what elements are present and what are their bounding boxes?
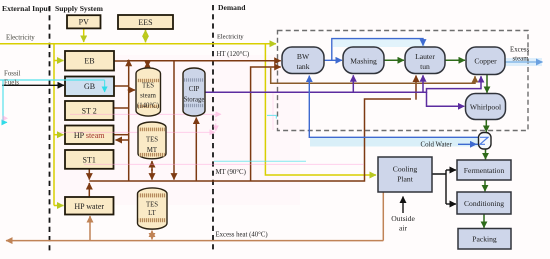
svg-text:air: air	[399, 224, 407, 233]
svg-text:Whirlpool: Whirlpool	[470, 102, 501, 111]
svg-text:TES: TES	[142, 83, 154, 90]
svg-text:Cold Water: Cold Water	[421, 142, 453, 149]
svg-text:HP water: HP water	[74, 202, 104, 211]
svg-text:ST1: ST1	[83, 155, 96, 164]
svg-text:Electricity: Electricity	[217, 33, 244, 40]
svg-text:Electricity: Electricity	[6, 35, 35, 42]
svg-text:ST 2: ST 2	[82, 106, 97, 115]
svg-text:steam: steam	[140, 93, 157, 100]
svg-text:tank: tank	[296, 62, 309, 71]
svg-text:Fossil: Fossil	[4, 71, 21, 78]
svg-text:MT (90°C): MT (90°C)	[216, 169, 246, 176]
svg-text:EES: EES	[138, 18, 152, 27]
svg-text:External Input: External Input	[2, 4, 51, 13]
svg-text:Outside: Outside	[391, 214, 415, 223]
svg-text:BW: BW	[297, 52, 310, 61]
svg-text:Packing: Packing	[472, 235, 497, 244]
svg-text:Lauter: Lauter	[415, 52, 435, 61]
svg-text:HP steam: HP steam	[74, 131, 105, 140]
svg-text:Excess: Excess	[510, 47, 529, 54]
svg-text:TES: TES	[146, 137, 158, 144]
svg-text:Copper: Copper	[474, 57, 497, 66]
svg-text:steam: steam	[513, 55, 530, 62]
svg-text:MT: MT	[147, 147, 158, 154]
svg-text:GB: GB	[84, 82, 95, 91]
svg-text:CIP: CIP	[189, 86, 200, 93]
svg-text:Mashing: Mashing	[350, 56, 377, 65]
svg-text:LT: LT	[148, 210, 157, 217]
svg-text:TES: TES	[146, 202, 158, 209]
svg-text:Demand: Demand	[218, 3, 246, 12]
svg-text:Fermentation: Fermentation	[464, 166, 505, 175]
svg-text:HT (120°C): HT (120°C)	[217, 51, 250, 58]
svg-text:PV: PV	[79, 18, 89, 27]
svg-text:Cooling: Cooling	[393, 165, 418, 174]
svg-text:Conditioning: Conditioning	[464, 199, 504, 208]
svg-text:(140°C): (140°C)	[137, 103, 159, 110]
svg-text:EB: EB	[84, 57, 94, 66]
svg-text:Excess heat (40°C): Excess heat (40°C)	[216, 231, 268, 238]
svg-text:Storage: Storage	[184, 97, 205, 104]
svg-text:Supply System: Supply System	[55, 4, 104, 13]
svg-text:Plant: Plant	[397, 175, 414, 184]
svg-text:tun: tun	[420, 62, 430, 71]
svg-text:Fuels: Fuels	[4, 79, 19, 86]
